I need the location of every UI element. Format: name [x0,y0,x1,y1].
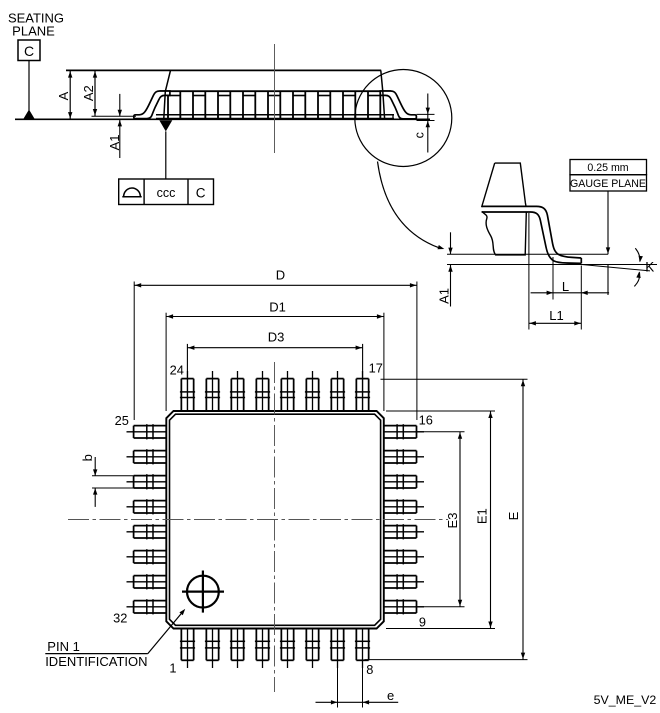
svg-text:5V_ME_V2: 5V_ME_V2 [594,693,657,707]
svg-text:16: 16 [419,413,433,428]
svg-text:1: 1 [169,661,176,676]
svg-text:0.25 mm: 0.25 mm [587,162,628,174]
svg-text:17: 17 [369,361,383,376]
svg-text:c: c [412,132,426,138]
svg-text:A2: A2 [81,85,96,101]
svg-text:C: C [24,43,34,59]
svg-text:e: e [387,688,394,703]
svg-text:ccc: ccc [157,186,176,200]
svg-text:8: 8 [366,662,373,677]
svg-text:PIN 1: PIN 1 [47,639,80,654]
svg-text:L1: L1 [549,308,563,323]
svg-text:D3: D3 [268,330,285,345]
svg-text:32: 32 [113,610,127,625]
svg-text:D: D [276,268,285,283]
svg-text:b: b [80,454,95,461]
svg-text:E1: E1 [474,508,489,524]
svg-text:D1: D1 [269,299,286,314]
svg-text:25: 25 [115,413,129,428]
svg-text:E: E [506,511,521,520]
svg-text:GAUGE PLANE: GAUGE PLANE [570,178,646,190]
svg-text:L: L [562,279,569,294]
svg-text:C: C [196,185,206,200]
svg-text:A1: A1 [436,288,451,304]
svg-text:24: 24 [170,362,184,377]
svg-text:K: K [645,259,654,274]
svg-text:9: 9 [419,615,426,630]
svg-text:IDENTIFICATION: IDENTIFICATION [45,654,147,669]
svg-text:PLANE: PLANE [12,24,55,39]
svg-text:E3: E3 [445,513,460,529]
svg-text:A1: A1 [107,134,122,150]
svg-text:A: A [56,91,71,100]
